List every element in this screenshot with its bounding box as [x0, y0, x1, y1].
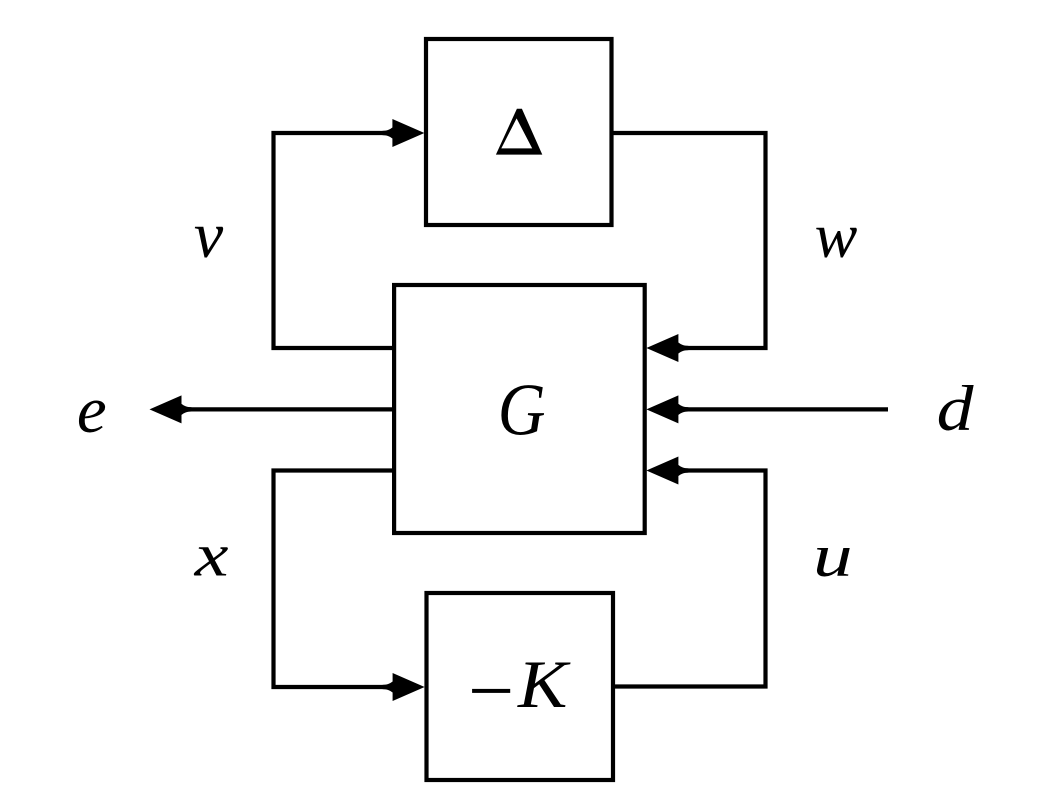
block G (plant)	[394, 285, 645, 533]
wire v: G left to Delta input	[274, 133, 417, 348]
wire w: Delta output to G right	[612, 133, 766, 348]
svg-text:w: w	[815, 200, 858, 271]
svg-text:v: v	[194, 199, 224, 272]
svg-text:u: u	[813, 523, 853, 590]
wire x: G left to -K input	[274, 471, 417, 688]
arrowhead into G (u)	[646, 457, 688, 485]
svg-text:K: K	[517, 648, 571, 723]
minus sign of -K	[472, 689, 510, 693]
arrowhead e	[150, 395, 192, 423]
svg-text:e: e	[77, 373, 107, 447]
block -K (controller)	[427, 593, 614, 780]
block Delta (uncertainty block)	[426, 39, 612, 225]
arrowhead into G (w)	[646, 334, 688, 362]
arrowhead into -K	[383, 673, 425, 701]
svg-text:x: x	[194, 522, 229, 589]
arrowhead into Delta	[382, 119, 424, 147]
svg-text:G: G	[498, 369, 546, 451]
Delta glyph	[496, 109, 542, 155]
arrowhead into G (d)	[646, 395, 688, 423]
wire e: G left output	[185, 407, 394, 411]
wire d: input to G right	[655, 407, 888, 411]
svg-text:d: d	[937, 373, 974, 445]
wire u: -K output to G right	[613, 471, 766, 687]
